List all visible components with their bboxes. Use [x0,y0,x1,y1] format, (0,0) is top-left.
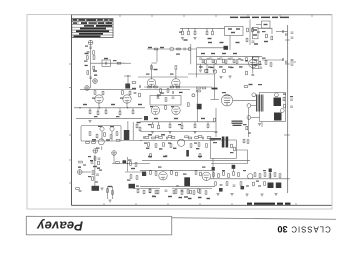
capacitor C33 [181,190,184,191]
resistor R84 [190,144,192,148]
note text row [230,17,289,19]
jack J2 box [252,27,258,39]
resistor R14 [246,38,248,42]
resistor R118 [107,189,109,193]
label marks row [179,197,211,199]
resistor R39 [104,133,106,137]
wire stack bus upper [197,55,263,57]
jack contacts [264,24,268,25]
below row [215,182,217,186]
label V2a pin [150,106,153,107]
resistor R68 [194,122,196,124]
resistor R83 [170,144,172,148]
resistor R15b [202,59,204,63]
resistor R31 [129,91,131,95]
node bubble [112,151,117,156]
value label [184,39,188,40]
resistor R51 [135,163,137,167]
wire input vertical [90,45,92,88]
label bot strip 2 [152,196,155,197]
resistor R96 [195,171,197,175]
B+ bus wire [287,25,289,193]
relay K2 box [210,140,236,158]
dark resistor R87 [186,150,189,157]
label ps row d [256,181,259,182]
wire feedback drop [214,74,216,100]
resistor R110 [264,173,266,177]
trimmer [192,94,195,97]
capacitor C19 [91,162,94,163]
value label [137,122,141,123]
value labels row [201,53,205,54]
resistor R2b [93,51,95,55]
resistor R46 [94,157,96,161]
dark comp [123,160,127,163]
capacitor C30 [203,137,204,140]
potentiometer VR2 [110,126,114,131]
ground G13 [108,200,111,202]
ground row [216,194,219,196]
resistor R89 [234,147,236,151]
wire tick [284,134,290,136]
resistor R47b [79,161,83,163]
resistor R87b [150,154,152,158]
resistor R67 [181,122,183,125]
capacitor C3 [89,77,92,78]
cluster small [76,188,80,190]
value label [131,168,135,169]
ground G9 [230,194,233,196]
wire below tubes [140,89,190,91]
label bot strip 3 [176,186,179,187]
resistor R43 [139,127,141,131]
triode V2a [151,106,159,114]
relay label [228,28,232,29]
capacitor C5 [257,32,260,33]
label fb box [160,93,164,94]
pilot lamp [170,47,174,51]
resistor R100 [190,190,192,194]
resistor R97 [200,172,202,176]
resistor R40 [110,135,112,139]
capacitor C10b [217,58,220,59]
wire jack link [256,24,262,26]
capacitor C8 [199,58,202,59]
pot treble [222,69,225,72]
label tone caps [208,67,212,68]
capacitor C27 [290,99,293,100]
resistor R22 [271,36,273,40]
resistor R123 [155,190,157,194]
capacitor C26 [215,132,218,133]
resistor R101 [198,189,200,193]
resistor R49 [92,177,94,181]
resistor R77 [171,137,175,139]
relay contacts [231,32,235,33]
resistor R24 [270,63,272,67]
grid components left [132,82,136,84]
ground G11 [260,194,263,196]
label ps row b [243,170,246,171]
tube pin bubble [93,79,98,84]
resistor R119 [112,191,114,195]
resistor R3 [117,62,121,64]
resistor R64 [152,122,154,124]
label text [210,138,222,140]
triode V5a [98,139,104,145]
resistor R13 [252,28,254,32]
resistor R18b [233,59,235,63]
resistor R58 [197,87,201,89]
resistor R76 [159,137,163,139]
title block [72,19,113,38]
label V1a pin [146,74,150,75]
resistor R42 [136,124,138,128]
tall comp stem B [212,170,214,179]
capacitor C19b [98,158,101,159]
value label 4 [236,42,240,43]
wire plate [252,56,254,59]
capacitor C1b [87,52,90,53]
power tube V6 [221,95,232,106]
resistor R124 [175,190,177,194]
triode V2b [172,106,180,114]
screen resistor R70 [244,86,248,88]
resistor R52 [130,175,132,179]
ground G2 [212,70,215,72]
wire drop [212,158,214,172]
wire stack left vertical [196,48,198,78]
tube internals [224,96,231,106]
ground [181,38,184,40]
value label [249,84,253,85]
wire vertical [127,76,129,88]
resistor R115 [240,182,242,186]
resistor R5 [154,48,158,50]
capacitor C17 [291,64,294,65]
node bubble [78,170,83,175]
ground G2b [219,77,222,79]
label R33 value [94,116,98,117]
capacitor C34 [220,185,223,186]
diode CR4 [283,58,284,61]
capacitor C37 [258,186,261,187]
resistor R47 [98,161,100,165]
value label [264,41,268,42]
label chain a [88,156,91,157]
cathode resistor R27 [167,89,169,93]
wire drop [127,157,129,172]
value label [85,53,89,54]
wire box-bottom continuation [121,140,142,142]
diode CR3 [286,33,287,36]
label mark [179,92,183,93]
wire link [262,59,283,61]
ground G1 [199,70,202,72]
svg-text:30: 30 [277,224,287,234]
resistor R56 [170,86,174,88]
wire plate V1b [175,70,177,80]
wire tick [285,39,290,41]
resistor R112 [274,173,276,177]
resistor R12 [247,28,249,32]
capacitor C18b [134,93,137,94]
capacitor C16 [291,60,294,61]
capacitor C30b [165,156,168,157]
label tone res [228,67,232,68]
dark blob lower a [219,188,223,192]
bottom rule above logos [26,216,336,219]
label xfmr [183,174,187,175]
wire run [133,188,160,190]
label T2 [258,84,262,85]
resistor R74 [284,104,286,108]
wire heater run [147,48,196,50]
capacitor C18 [140,85,141,88]
wire top run [144,86,212,88]
value labels [152,196,156,197]
output transformer T2 winding [257,95,263,112]
resistor R7 [182,28,184,31]
capacitor C13 [251,75,254,76]
resistor R44 [86,142,90,144]
resistor R120 [137,189,139,193]
resistor R48 [92,171,94,175]
capacitor C28 [290,106,293,107]
wire top run [80,88,136,90]
wire top run [180,27,225,29]
triode V7a [159,172,167,180]
resistor R90 [243,139,245,143]
resistor R27b [139,93,141,97]
dark dash mark [212,88,218,90]
capacitor C13b [259,67,262,68]
transformer pin bubble 5 [280,109,284,113]
label bus tap [290,96,293,97]
value labels [83,104,87,105]
label bus tap 2 [283,94,286,95]
wire bottom right strip [172,188,212,190]
label R35 value [116,116,120,117]
label V5a [96,148,100,149]
resistor R78 [188,137,192,139]
junction dots [79,107,80,108]
junction dot [127,75,128,76]
resistor R99 [173,190,175,194]
ground G7 [193,132,196,134]
capacitor C15 [291,37,294,38]
resistor R10 [206,31,208,35]
jack contact marks [253,29,257,30]
components below [148,143,150,147]
sheet outer border (paper edge) [27,15,332,210]
label i1 [85,65,98,76]
resistor R54 [148,86,152,88]
wire pin link a [251,105,257,107]
value label [104,58,108,59]
transformer pin bubble 1 [252,93,256,97]
capacitor dark C24 [144,116,148,120]
resistor R104 [223,172,225,176]
label R52 value [127,180,131,181]
capacitor C29b [144,136,145,139]
wire feedback run [188,73,215,75]
resistor R95 [176,172,178,176]
footswitch jack box [262,21,271,28]
capacitor C38 [269,186,272,187]
cathode resistor R26 [160,89,162,93]
label row A3 [194,143,197,144]
junction dot [127,163,128,164]
resistor R102 [213,173,215,177]
value label [93,166,97,167]
resistor R129 [205,191,207,195]
label R1 value [84,61,88,62]
value label [132,88,136,89]
capacitor C12 [241,60,244,61]
transformer pin bubble 4 [275,93,279,97]
value label [148,47,152,48]
resistor R21 [266,34,268,38]
note text block [232,121,243,127]
label bot strip [136,186,139,187]
wire horizontal [124,75,131,77]
resistor R19 [206,69,208,73]
label chain c [88,176,91,177]
resistor R81 [155,144,157,148]
label return level [262,58,266,59]
capacitor C21 [95,182,98,183]
wire cathode drop [101,146,103,150]
resistor R29 [102,91,104,95]
resistor R4b [93,66,95,70]
output section enclosure [260,93,286,122]
capacitor C32 [165,190,168,191]
top border ruler ticks [120,15,312,17]
capacitor C6 [252,41,255,42]
triode V4b [123,95,131,103]
node A1 grid bubble [88,40,93,45]
resistor R86 [206,144,208,148]
label pot 1 [98,126,102,127]
wire below box [261,122,263,128]
wire drops [200,64,202,69]
resistor R122 [149,189,151,193]
resistor R15 [205,60,207,64]
tall capacitor dark 2 [226,137,229,148]
resistor R8 [188,28,190,31]
label K2 [213,142,217,143]
capacitor C9 [209,58,212,59]
label heater [176,54,180,55]
resistor R116 [253,182,255,186]
resistor R20 [246,71,248,75]
resistor R11 [212,31,214,35]
relay K1 box [225,27,244,36]
wire to first triode [91,62,125,64]
label R50 value [128,160,132,161]
resistor R63 [187,103,189,107]
component row above [145,137,149,139]
wire send vertical [190,44,192,64]
wire verticals [127,121,129,140]
triode V4a [95,95,103,103]
wire treble feed [197,47,225,49]
value label [208,38,212,39]
value labels [154,118,158,119]
triode V1b [172,79,180,87]
resistor R45 [92,142,96,144]
resistor R4 [87,71,89,75]
resistor R75 [152,137,156,139]
resistor R20b [259,61,261,65]
resistor R38 [96,134,98,138]
resistor R23 [265,61,267,65]
wire left vertical [215,108,217,137]
value label [108,186,112,187]
resistor R80d [185,136,189,138]
resistor R91 [247,140,249,144]
wire heater drop [156,49,158,62]
diode CR1 block [125,84,130,89]
value label [93,70,97,71]
capacitor C11 [230,58,233,59]
resistor R32 [89,108,91,110]
resistor R57 [176,86,180,88]
value label 3 [220,42,224,43]
label band marks [146,148,199,150]
pots enclosure [81,126,121,141]
resistor R17 [225,60,227,64]
triode V7b [202,172,210,180]
label V4a grid [92,98,96,99]
wire bias vertical [247,108,249,137]
schematic frame top border [72,14,332,16]
jack contact marks [254,59,258,60]
capacitor C20 [96,174,99,175]
transformer small dark [184,177,190,186]
potentiometer VR1 [100,126,104,131]
schematic frame bottom border [72,204,332,206]
resistor R80e [198,136,202,138]
resistor R60 [197,90,201,92]
ground G0 [156,96,159,98]
label pot 2 [110,126,114,127]
diode CR2 [283,30,284,33]
label R26 value [157,95,161,96]
electrolytic pair dark [92,186,100,191]
resistor R94 [171,171,173,175]
resistor R69 [207,122,209,124]
resistor R108 [254,173,256,177]
node bubble [85,86,90,91]
resistor R65 [158,122,160,125]
wire mid run [74,107,145,109]
wire loop [211,150,248,164]
wire vertical chain [94,155,96,186]
cap dark top [232,165,236,169]
capacitor dark C31 [142,172,146,177]
wire run B [142,159,250,161]
node bubble [93,149,98,154]
ground G6 [168,132,171,134]
wire relay drop [229,36,231,51]
resistor R2 [93,56,95,60]
resistor R17b [246,58,248,62]
wire run lower [140,185,215,187]
resistor R16 [215,60,217,64]
triode V5b [178,139,185,146]
